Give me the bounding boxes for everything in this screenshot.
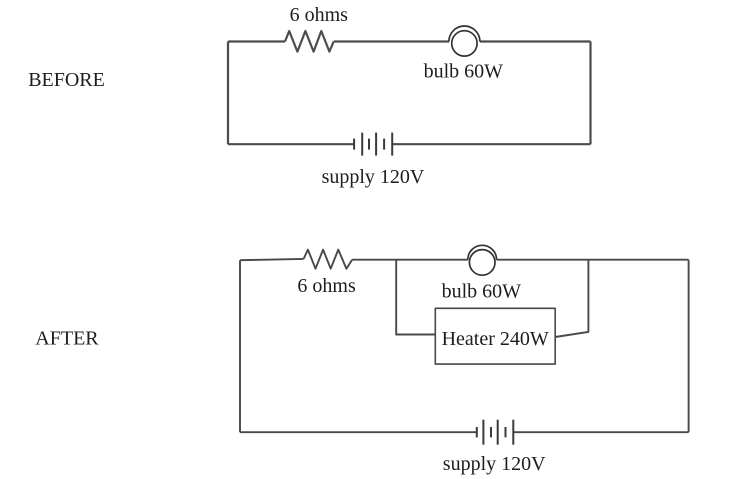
wire bottom-left to battery (BEFORE) [228,143,354,145]
wire battery to bottom-right (BEFORE) [392,143,590,145]
resistor R2 6 ohms (AFTER) [304,250,353,269]
wire right vertical (BEFORE) [589,42,591,145]
wire left vertical (AFTER) [239,260,241,432]
svg-text:bulb 60W: bulb 60W [424,60,504,82]
svg-text:bulb 60W: bulb 60W [442,280,522,302]
svg-text:AFTER: AFTER [35,327,99,349]
wire heater left branch (AFTER) [396,260,435,335]
svg-text:6 ohms: 6 ohms [290,4,349,26]
wire bulb-to-right-corner with node junction (AFTER) [497,259,689,261]
svg-text:6 ohms: 6 ohms [297,275,356,297]
battery supply (AFTER) [477,420,514,445]
wire left vertical (BEFORE) [227,42,229,145]
lamp bulb 60W (AFTER) [468,245,497,275]
svg-text:supply 120V: supply 120V [322,166,425,188]
svg-text:BEFORE: BEFORE [28,69,105,91]
wire bulb-to-right-corner (BEFORE) [480,40,591,42]
wire battery to bottom-right (AFTER) [513,431,688,433]
heater 240W box (AFTER) [435,308,555,364]
wire top-left lead (BEFORE) [228,40,285,42]
battery supply (BEFORE) [354,133,392,156]
wire right vertical (AFTER) [688,260,690,433]
wire heater right branch (AFTER) [555,260,588,337]
wire resistor-to-bulb with node junction (AFTER) [352,259,468,261]
svg-text:Heater 240W: Heater 240W [442,328,549,350]
svg-text:supply 120V: supply 120V [443,453,546,475]
wire bottom-left to battery (AFTER) [240,431,477,433]
wire top-left lead (AFTER) [240,259,304,260]
lamp bulb 60W (BEFORE) [449,26,480,56]
resistor R1 6 ohms (BEFORE) [285,31,334,52]
wire resistor-to-bulb (BEFORE) [334,40,449,42]
